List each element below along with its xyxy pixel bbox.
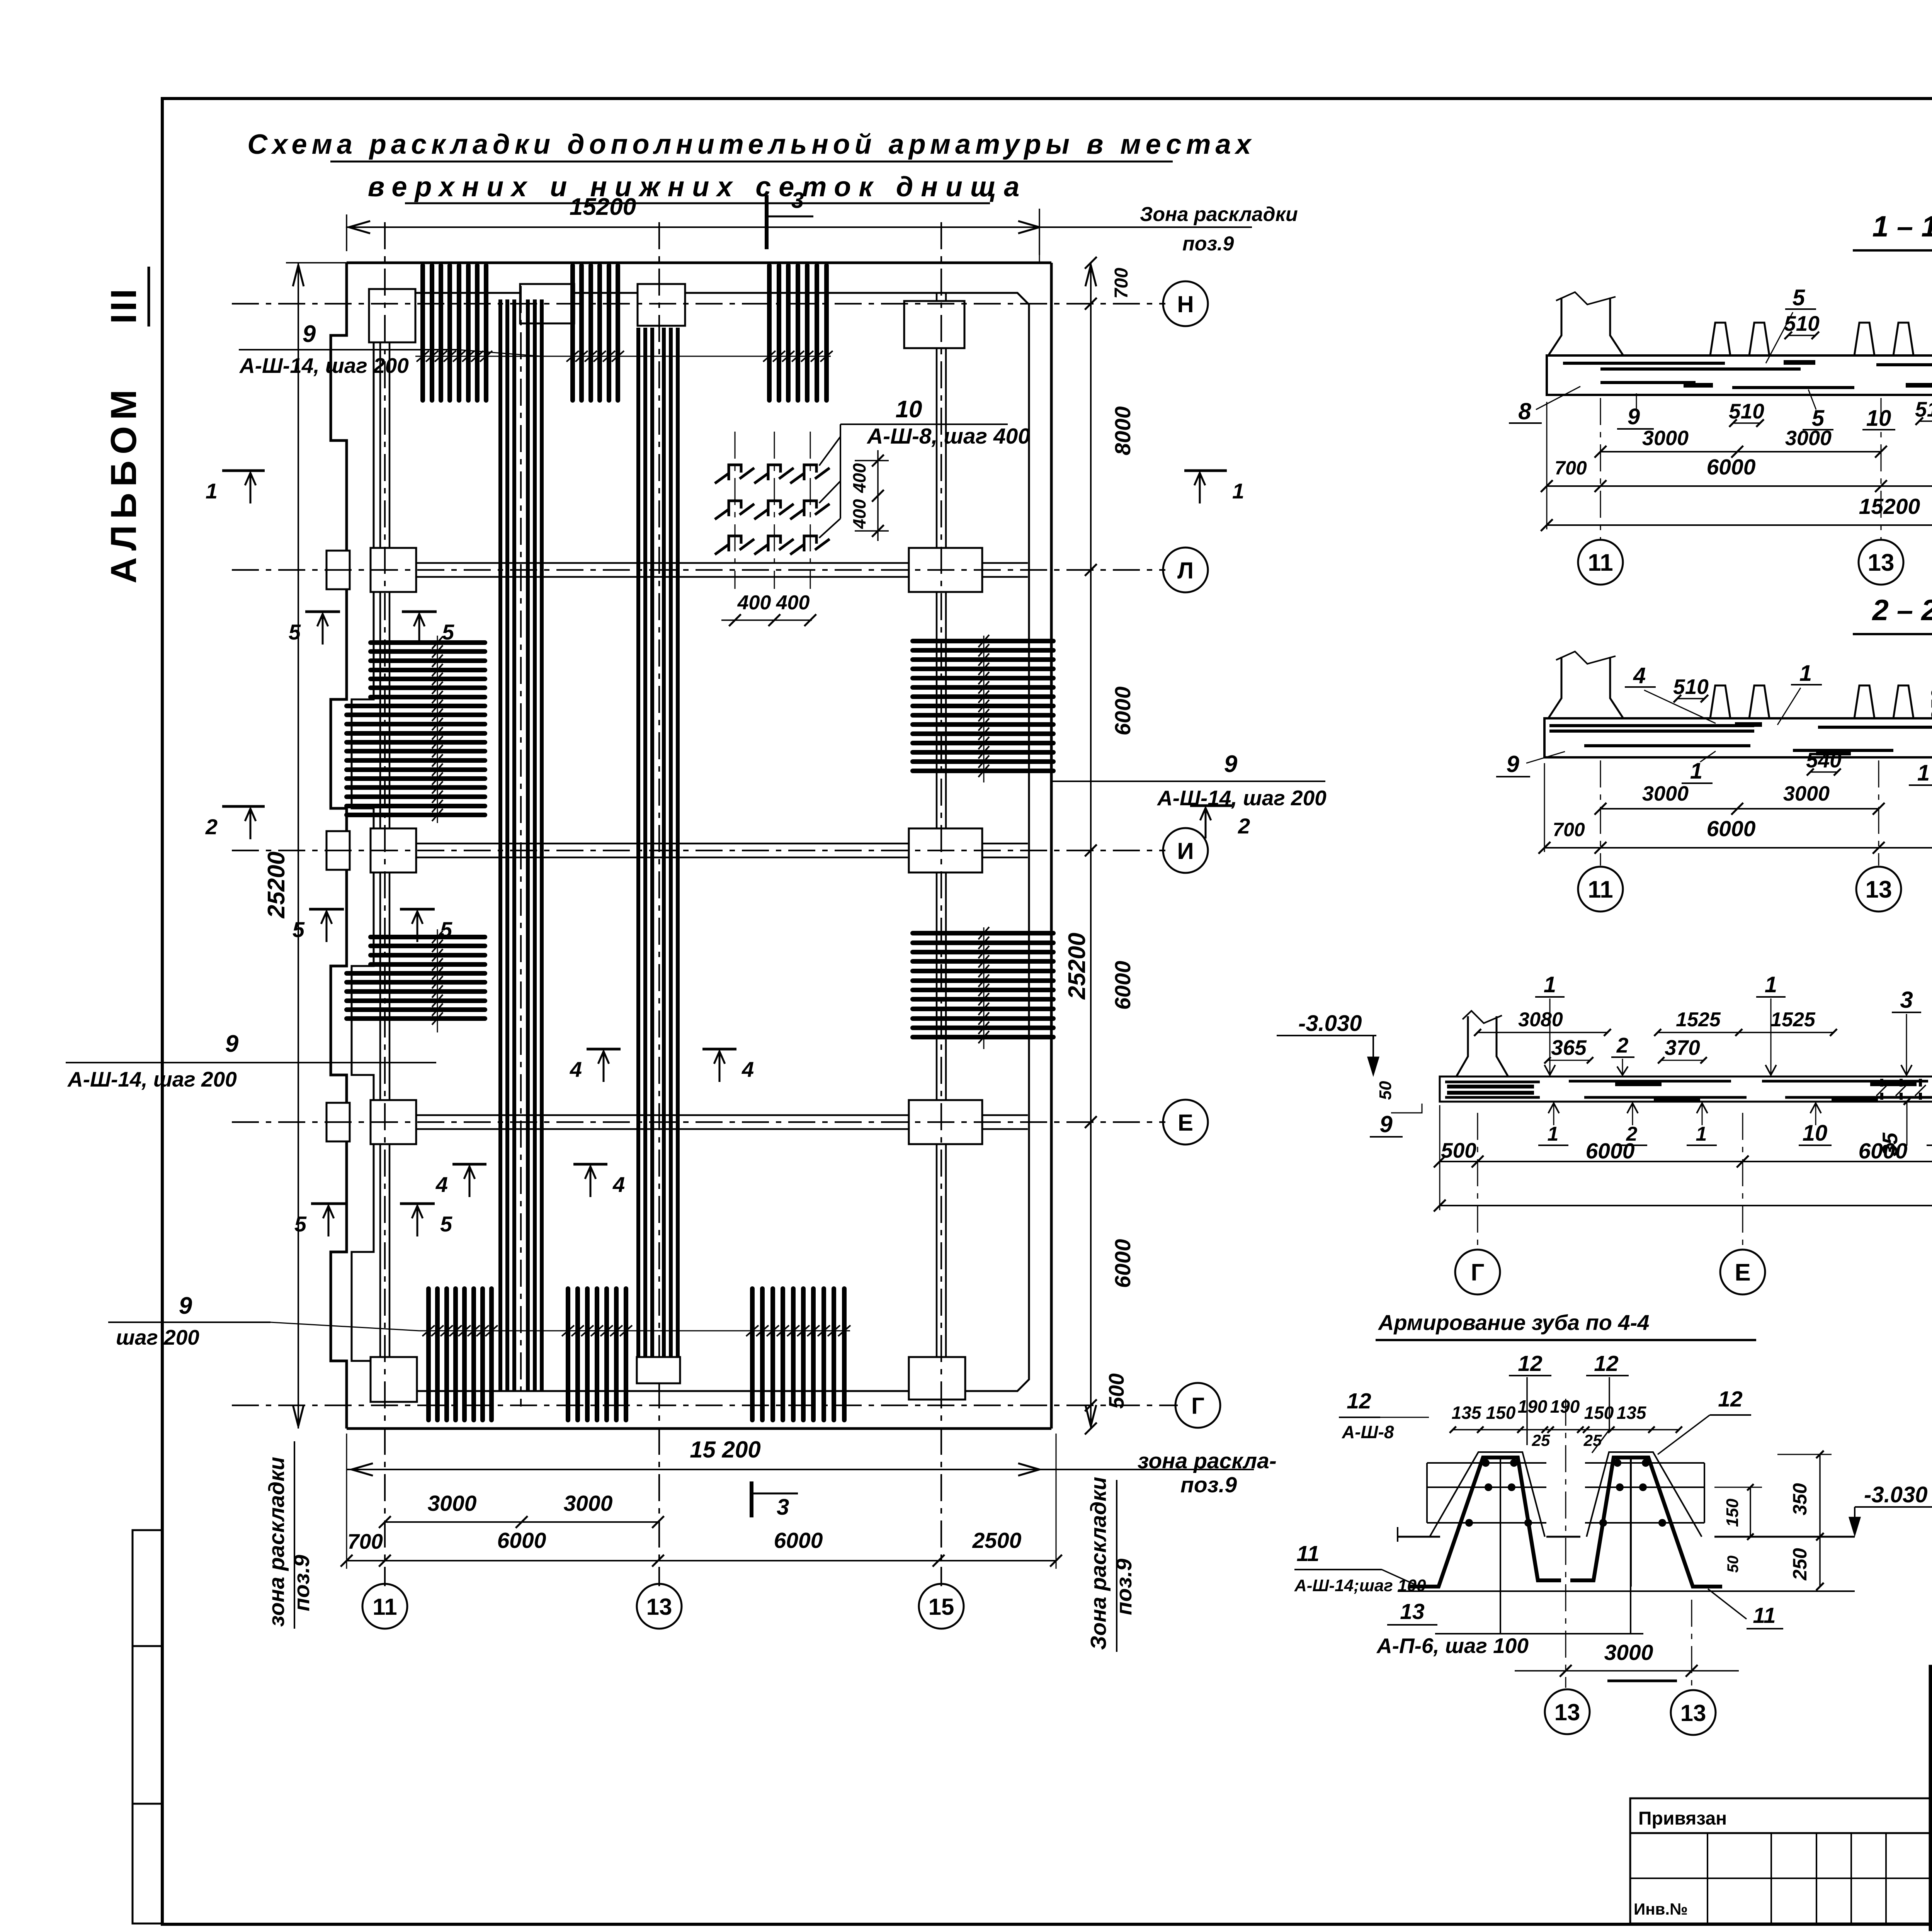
svg-text:1: 1 — [1696, 1123, 1707, 1145]
svg-text:3000: 3000 — [428, 1491, 477, 1516]
svg-text:поз.9: поз.9 — [1112, 1558, 1136, 1615]
svg-text:Привязан: Привязан — [1638, 1808, 1727, 1829]
svg-text:А-Ш-8, шаг 400: А-Ш-8, шаг 400 — [866, 424, 1030, 449]
svg-text:12: 12 — [1518, 1351, 1543, 1376]
svg-text:6000: 6000 — [1707, 816, 1756, 841]
svg-text:12: 12 — [1718, 1387, 1743, 1412]
svg-text:12: 12 — [1347, 1389, 1371, 1413]
svg-text:6000: 6000 — [1111, 961, 1135, 1010]
svg-text:135: 135 — [1617, 1403, 1647, 1423]
svg-text:50: 50 — [1725, 1556, 1742, 1573]
svg-text:6000: 6000 — [1111, 1239, 1135, 1288]
svg-text:5: 5 — [293, 917, 305, 942]
svg-text:Армирование зуба по 4-4: Армирование зуба по 4-4 — [1378, 1310, 1649, 1335]
svg-text:400: 400 — [776, 592, 810, 614]
svg-text:13: 13 — [646, 1594, 672, 1620]
svg-text:6000: 6000 — [774, 1528, 823, 1553]
svg-text:13: 13 — [1866, 876, 1892, 903]
svg-text:700: 700 — [1553, 819, 1585, 840]
svg-text:4: 4 — [1633, 663, 1646, 688]
svg-text:11: 11 — [1588, 549, 1613, 576]
svg-text:3000: 3000 — [1783, 782, 1830, 805]
svg-text:11: 11 — [1753, 1603, 1776, 1628]
svg-text:6000: 6000 — [1111, 686, 1135, 735]
svg-text:350: 350 — [1927, 689, 1932, 721]
svg-text:1: 1 — [1544, 972, 1556, 997]
svg-text:13: 13 — [1868, 549, 1895, 576]
svg-text:370: 370 — [1665, 1036, 1700, 1060]
svg-text:11: 11 — [372, 1594, 397, 1620]
svg-text:9: 9 — [179, 1293, 192, 1319]
svg-text:5: 5 — [440, 917, 452, 942]
svg-text:3000: 3000 — [564, 1491, 613, 1516]
svg-text:3080: 3080 — [1518, 1009, 1563, 1031]
svg-text:Зона раскладки: Зона раскладки — [1086, 1477, 1111, 1650]
svg-text:А-П-6, шаг 100: А-П-6, шаг 100 — [1376, 1634, 1529, 1658]
svg-text:2500: 2500 — [972, 1528, 1022, 1553]
svg-text:350: 350 — [1789, 1483, 1811, 1515]
svg-text:зона раскла-: зона раскла- — [1138, 1449, 1277, 1473]
svg-text:шаг 200: шаг 200 — [116, 1325, 199, 1349]
svg-text:5: 5 — [289, 620, 301, 644]
svg-text:150: 150 — [1723, 1498, 1742, 1527]
svg-text:6000: 6000 — [497, 1528, 546, 1553]
svg-text:2: 2 — [1616, 1033, 1629, 1057]
svg-text:Н: Н — [1177, 291, 1194, 317]
svg-text:4: 4 — [612, 1172, 625, 1197]
svg-text:9: 9 — [1506, 751, 1519, 777]
svg-text:8: 8 — [1518, 398, 1531, 424]
svg-text:540: 540 — [1806, 748, 1842, 772]
svg-text:1525: 1525 — [1770, 1009, 1816, 1031]
svg-text:150: 150 — [1584, 1403, 1614, 1423]
svg-text:15: 15 — [929, 1594, 954, 1620]
svg-text:9: 9 — [1379, 1111, 1393, 1137]
svg-text:9: 9 — [1224, 751, 1238, 777]
svg-text:2 – 2: 2 – 2 — [1871, 594, 1932, 627]
svg-text:13: 13 — [1680, 1700, 1706, 1726]
svg-text:3000: 3000 — [1642, 782, 1689, 805]
svg-text:6000: 6000 — [1707, 455, 1756, 480]
svg-text:4: 4 — [570, 1057, 582, 1082]
svg-text:И: И — [1177, 838, 1194, 864]
svg-text:3000: 3000 — [1604, 1640, 1653, 1665]
svg-text:400: 400 — [737, 592, 771, 614]
svg-text:Инв.№: Инв.№ — [1634, 1900, 1688, 1918]
svg-text:510: 510 — [1729, 399, 1764, 423]
svg-text:10: 10 — [1866, 406, 1891, 431]
svg-text:1525: 1525 — [1676, 1009, 1721, 1031]
svg-text:700: 700 — [1111, 268, 1132, 299]
svg-text:8000: 8000 — [1111, 406, 1135, 455]
svg-text:4: 4 — [742, 1057, 754, 1082]
svg-text:Л: Л — [1177, 558, 1194, 583]
svg-text:510: 510 — [1915, 397, 1932, 421]
svg-text:Е: Е — [1178, 1110, 1193, 1136]
svg-text:5: 5 — [442, 620, 454, 644]
svg-text:Г: Г — [1471, 1259, 1484, 1286]
svg-text:АЛЬБОМ: АЛЬБОМ — [103, 383, 144, 583]
svg-text:11: 11 — [1296, 1541, 1319, 1566]
svg-text:13: 13 — [1554, 1699, 1580, 1725]
svg-text:-3.030: -3.030 — [1298, 1011, 1362, 1036]
svg-text:50: 50 — [1376, 1081, 1395, 1100]
svg-text:25200: 25200 — [1064, 933, 1090, 1000]
svg-text:700: 700 — [347, 1529, 383, 1553]
svg-text:5: 5 — [1793, 285, 1805, 310]
svg-text:3000: 3000 — [1642, 427, 1689, 450]
svg-text:поз.9: поз.9 — [289, 1554, 314, 1611]
svg-text:250: 250 — [1789, 1548, 1811, 1581]
svg-text:4: 4 — [435, 1172, 448, 1197]
svg-text:зона раскладки: зона раскладки — [264, 1457, 289, 1627]
svg-text:150: 150 — [1486, 1403, 1516, 1423]
svg-text:2: 2 — [1238, 814, 1250, 838]
svg-text:III: III — [103, 287, 144, 324]
svg-text:15200: 15200 — [570, 194, 636, 220]
svg-text:5: 5 — [440, 1212, 452, 1236]
svg-text:365: 365 — [1551, 1036, 1587, 1060]
svg-text:11: 11 — [1588, 876, 1613, 903]
svg-text:10: 10 — [1803, 1121, 1828, 1146]
svg-text:5: 5 — [294, 1212, 307, 1236]
svg-text:верхних и нижних сеток днища: верхних и нижних сеток днища — [368, 172, 1027, 202]
svg-text:12: 12 — [1594, 1351, 1619, 1376]
svg-text:510: 510 — [1784, 311, 1820, 335]
svg-text:1: 1 — [206, 479, 218, 503]
svg-text:6000: 6000 — [1859, 1139, 1908, 1163]
svg-text:700: 700 — [1554, 457, 1587, 479]
svg-text:1: 1 — [1765, 972, 1777, 997]
svg-text:А-Ш-8: А-Ш-8 — [1342, 1422, 1394, 1442]
svg-text:500: 500 — [1441, 1138, 1476, 1162]
svg-text:3: 3 — [791, 188, 804, 213]
svg-text:1 – 1: 1 – 1 — [1872, 210, 1932, 243]
svg-text:2: 2 — [205, 815, 218, 839]
svg-text:1: 1 — [1917, 760, 1930, 786]
svg-text:А-Ш-14, шаг 200: А-Ш-14, шаг 200 — [1156, 786, 1327, 810]
svg-text:9: 9 — [303, 321, 316, 347]
svg-text:1: 1 — [1548, 1123, 1559, 1145]
svg-text:А-Ш-14, шаг 200: А-Ш-14, шаг 200 — [239, 354, 409, 378]
svg-text:25: 25 — [1532, 1431, 1550, 1449]
svg-text:9: 9 — [1628, 404, 1640, 429]
svg-text:3: 3 — [777, 1495, 789, 1520]
svg-text:190: 190 — [1518, 1396, 1548, 1417]
svg-text:510: 510 — [1673, 675, 1709, 699]
svg-text:6000: 6000 — [1586, 1139, 1635, 1163]
svg-text:3000: 3000 — [1785, 427, 1832, 450]
svg-text:Е: Е — [1735, 1259, 1750, 1286]
svg-text:1: 1 — [1232, 479, 1244, 503]
svg-text:поз.9: поз.9 — [1182, 233, 1234, 255]
svg-text:25: 25 — [1583, 1431, 1602, 1449]
svg-text:15 200: 15 200 — [690, 1437, 761, 1463]
svg-text:135: 135 — [1452, 1403, 1482, 1423]
svg-text:400: 400 — [849, 499, 869, 529]
svg-text:А-Ш-14;шаг 100: А-Ш-14;шаг 100 — [1294, 1576, 1426, 1595]
svg-text:9: 9 — [225, 1031, 239, 1057]
svg-text:13: 13 — [1400, 1599, 1425, 1624]
svg-text:-3.030: -3.030 — [1864, 1482, 1927, 1507]
svg-text:3: 3 — [1900, 987, 1913, 1013]
svg-text:поз.9: поз.9 — [1180, 1473, 1237, 1497]
svg-text:190: 190 — [1550, 1396, 1580, 1417]
svg-text:25200: 25200 — [263, 852, 290, 918]
svg-text:Г: Г — [1191, 1393, 1204, 1419]
svg-text:10: 10 — [896, 396, 922, 423]
svg-text:А-Ш-14, шаг 200: А-Ш-14, шаг 200 — [67, 1067, 237, 1091]
svg-text:15200: 15200 — [1859, 494, 1920, 519]
svg-text:1: 1 — [1799, 661, 1812, 686]
svg-text:Схема раскладки дополнительной: Схема раскладки дополнительной арматуры … — [247, 129, 1255, 160]
svg-text:Зона раскладки: Зона раскладки — [1140, 203, 1298, 226]
svg-text:500: 500 — [1104, 1373, 1128, 1409]
svg-text:400: 400 — [849, 463, 869, 493]
